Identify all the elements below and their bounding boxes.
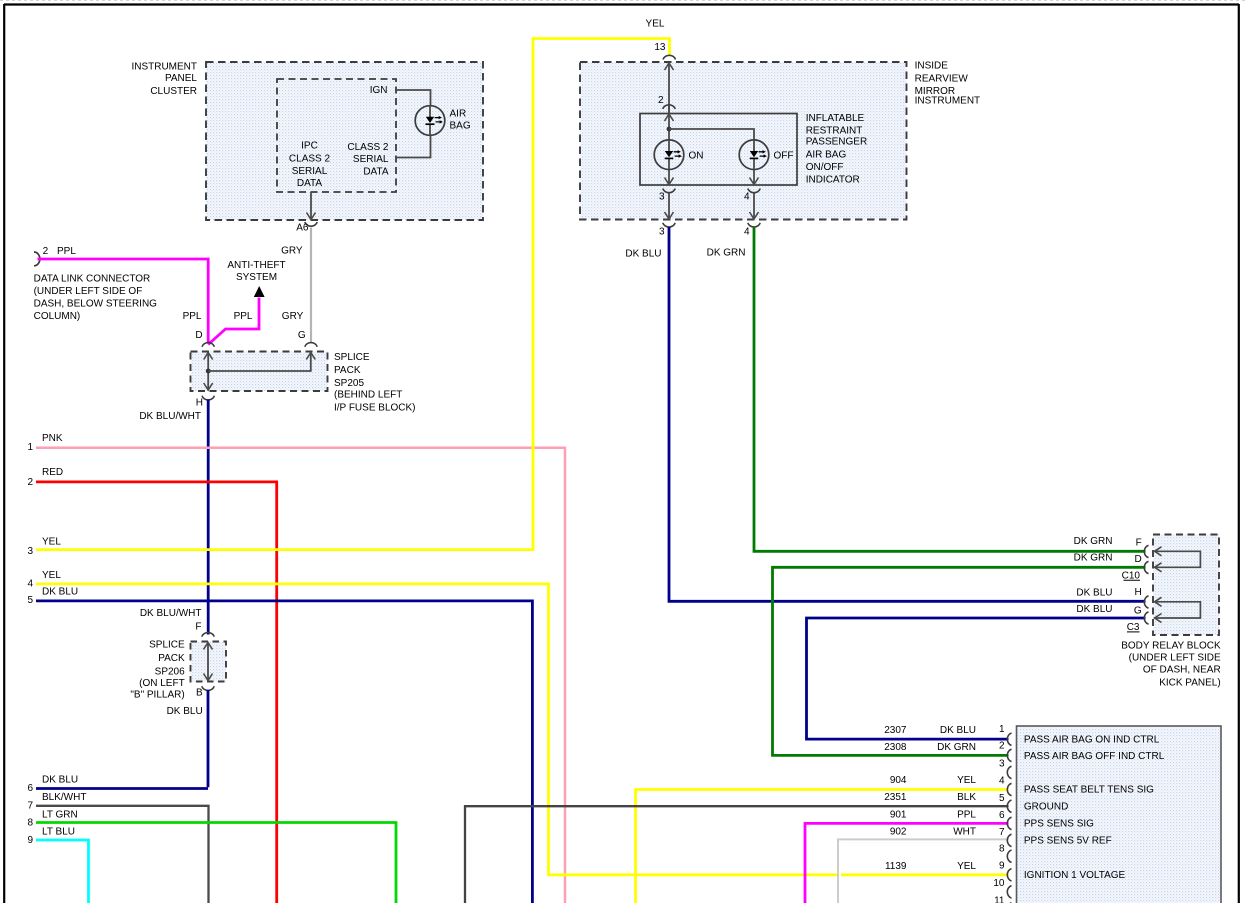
svg-text:2308: 2308 [884, 742, 907, 753]
svg-text:PASS AIR BAG ON IND CTRL: PASS AIR BAG ON IND CTRL [1024, 734, 1160, 745]
svg-text:6: 6 [27, 783, 33, 794]
svg-text:DK GRN: DK GRN [1074, 552, 1113, 563]
svg-text:PACK: PACK [334, 365, 361, 376]
svg-text:3: 3 [659, 227, 665, 238]
wire 1 PNK [27, 433, 565, 903]
wire 901 PPL to pin 6 [805, 823, 1009, 903]
svg-text:LT BLU: LT BLU [42, 826, 75, 837]
SP205 internal bus [204, 353, 316, 391]
wire PPL data link to SP205 D [38, 259, 209, 344]
svg-text:4: 4 [744, 227, 750, 238]
svg-text:C10: C10 [1122, 570, 1141, 581]
svg-text:CLUSTER: CLUSTER [150, 86, 197, 97]
SP205 pin G [298, 330, 317, 347]
inside rearview mirror block [580, 61, 980, 220]
svg-text:YEL: YEL [646, 19, 665, 30]
svg-text:ON/OFF: ON/OFF [806, 162, 844, 173]
svg-text:G: G [1134, 605, 1142, 616]
svg-text:RED: RED [42, 467, 63, 478]
svg-text:DK BLU: DK BLU [167, 706, 203, 717]
splice pack SP206 [130, 639, 226, 700]
svg-text:H: H [1134, 587, 1141, 598]
svg-text:PANEL: PANEL [165, 73, 197, 84]
wire 904 YEL to pin 4 [636, 790, 1009, 903]
SP206 pin F connector [202, 632, 214, 636]
mirror case pin 3 connector [659, 223, 675, 238]
wire 8 LT GRN [27, 809, 396, 903]
svg-text:PASSENGER: PASSENGER [806, 137, 868, 148]
svg-text:IPC: IPC [301, 140, 318, 151]
svg-text:F: F [195, 621, 201, 632]
svg-text:PPL: PPL [183, 311, 202, 322]
svg-text:2307: 2307 [884, 725, 907, 736]
SP205 pin D [195, 330, 214, 347]
svg-text:3: 3 [999, 759, 1005, 770]
wires module pins to mirror case pins [665, 193, 759, 219]
svg-text:6: 6 [999, 810, 1005, 821]
svg-text:902: 902 [890, 826, 907, 837]
module pin 3 connector [659, 189, 675, 203]
svg-text:INFLATABLE: INFLATABLE [806, 113, 865, 124]
svg-text:WHT: WHT [953, 826, 976, 837]
wire GRY A6 to SP205 G [281, 228, 311, 344]
svg-text:5: 5 [27, 595, 33, 606]
LED OFF indicator [739, 140, 793, 170]
svg-text:1139: 1139 [885, 861, 907, 872]
indicator inner module box [640, 113, 867, 186]
svg-text:BLK: BLK [957, 792, 976, 803]
wire DK BLU/WHT SP205 H to SP206 F [139, 400, 208, 635]
svg-text:YEL: YEL [957, 775, 976, 786]
svg-text:1: 1 [999, 724, 1005, 735]
wire PPL branch to anti-theft [208, 298, 259, 345]
svg-text:2: 2 [658, 95, 664, 106]
svg-text:PPL: PPL [57, 246, 76, 257]
connector pin 10 [993, 878, 1011, 898]
svg-text:11: 11 [994, 895, 1005, 903]
svg-text:SYSTEM: SYSTEM [236, 272, 277, 283]
svg-text:2: 2 [27, 477, 33, 488]
svg-text:D: D [1134, 554, 1141, 565]
svg-text:DK GRN: DK GRN [1074, 536, 1113, 547]
wire label 1139 YEL [885, 861, 976, 872]
svg-text:YEL: YEL [42, 536, 61, 547]
svg-text:COLUMN): COLUMN) [34, 311, 81, 322]
body relay connector C10 [1122, 570, 1141, 581]
body relay jumper H-G [1155, 597, 1201, 622]
wire 902 WHT to pin 7 [839, 840, 1009, 903]
body relay connector C3 [1127, 622, 1140, 633]
svg-text:5: 5 [999, 793, 1005, 804]
svg-text:DATA: DATA [297, 178, 323, 189]
svg-text:7: 7 [27, 800, 33, 811]
svg-text:7: 7 [999, 827, 1005, 838]
svg-text:PPS SENS 5V REF: PPS SENS 5V REF [1024, 836, 1112, 847]
svg-text:OFF: OFF [774, 150, 794, 161]
svg-text:INSIDE: INSIDE [915, 61, 949, 72]
svg-text:CLASS 2: CLASS 2 [289, 153, 331, 164]
svg-text:YEL: YEL [957, 861, 976, 872]
instrument panel cluster block [131, 62, 483, 221]
svg-text:2351: 2351 [884, 792, 907, 803]
svg-text:INSTRUMENT: INSTRUMENT [131, 62, 197, 73]
data link connector pin 2 [34, 246, 158, 322]
svg-text:DK BLU: DK BLU [625, 249, 661, 260]
wire 9 LT BLU [27, 826, 88, 903]
svg-text:13: 13 [654, 42, 666, 53]
svg-text:F: F [1136, 538, 1142, 549]
svg-text:DK GRN: DK GRN [937, 742, 976, 753]
wire 3 YEL to mirror pin 13 [27, 19, 669, 557]
svg-text:YEL: YEL [42, 570, 61, 581]
svg-text:SP206: SP206 [155, 666, 185, 677]
svg-text:2: 2 [43, 246, 49, 257]
wire 2 RED [27, 467, 276, 903]
module pin 4 connector [744, 189, 760, 203]
passenger module connector box [1017, 726, 1222, 903]
wire DK GRN mirror pin4 to body relay F [707, 227, 1146, 551]
LED air bag indicator U1 [415, 105, 471, 136]
svg-text:(UNDER LEFT SIDE OF: (UNDER LEFT SIDE OF [34, 286, 143, 297]
label DK BLU/WHT above wire 5 [140, 608, 202, 632]
wire 4 YEL 1139 ignition to pin 9 [27, 570, 1008, 875]
svg-text:DK BLU: DK BLU [42, 587, 78, 598]
svg-text:GROUND: GROUND [1024, 802, 1068, 813]
LED ON indicator [654, 140, 703, 170]
svg-text:SERIAL: SERIAL [353, 154, 389, 165]
svg-text:DATA LINK CONNECTOR: DATA LINK CONNECTOR [34, 273, 151, 284]
svg-text:DASH, BELOW STEERING: DASH, BELOW STEERING [34, 298, 158, 309]
wire 2351 BLK to pin 5 [465, 806, 1009, 903]
svg-text:1: 1 [27, 442, 33, 453]
svg-text:AIR: AIR [450, 108, 467, 119]
wire label 2351 BLK [884, 792, 976, 803]
anti-theft system arrow [227, 260, 285, 297]
wire 5 DK BLU [27, 587, 532, 903]
svg-text:G: G [298, 330, 306, 341]
wire IGN to LED [396, 90, 431, 158]
svg-text:AIR BAG: AIR BAG [806, 149, 847, 160]
svg-text:"B" PILLAR): "B" PILLAR) [130, 689, 184, 700]
pin A6 connector [296, 222, 317, 234]
connector pin 2 [999, 740, 1012, 761]
svg-text:SP205: SP205 [334, 378, 364, 389]
svg-text:SPLICE: SPLICE [334, 352, 370, 363]
svg-text:2: 2 [999, 740, 1005, 751]
svg-text:DK BLU: DK BLU [940, 725, 976, 736]
svg-text:ON: ON [689, 150, 704, 161]
svg-text:BAG: BAG [450, 121, 471, 132]
svg-text:8: 8 [999, 844, 1005, 855]
svg-text:B: B [196, 687, 203, 698]
svg-text:PASS SEAT BELT TENS SIG: PASS SEAT BELT TENS SIG [1024, 785, 1154, 796]
wire label 2308 DK GRN [884, 742, 976, 753]
svg-text:(ON LEFT: (ON LEFT [139, 678, 185, 689]
svg-text:BODY RELAY BLOCK: BODY RELAY BLOCK [1121, 640, 1221, 651]
connector pin 6 [999, 810, 1012, 830]
svg-text:PPL: PPL [957, 809, 976, 820]
svg-text:ANTI-THEFT: ANTI-THEFT [227, 260, 285, 271]
svg-text:I/P FUSE BLOCK): I/P FUSE BLOCK) [334, 402, 416, 413]
SP205 pin H [196, 396, 215, 409]
connector pin 1 [999, 724, 1012, 745]
svg-text:INDICATOR: INDICATOR [806, 175, 860, 186]
wire label 901 PPL [890, 809, 977, 820]
svg-text:904: 904 [890, 775, 907, 786]
svg-text:REARVIEW: REARVIEW [915, 73, 969, 84]
svg-text:PNK: PNK [42, 433, 63, 444]
svg-text:DK BLU: DK BLU [1076, 587, 1112, 598]
svg-text:CLASS 2: CLASS 2 [347, 142, 389, 153]
svg-text:DK BLU: DK BLU [42, 775, 78, 786]
wire 6 DK BLU from SP206 [27, 775, 208, 794]
svg-text:IGN: IGN [370, 85, 388, 96]
svg-text:4: 4 [999, 776, 1005, 787]
svg-text:INSTRUMENT: INSTRUMENT [915, 96, 981, 107]
connector pin 9 [999, 861, 1012, 881]
connector pin 4 [999, 776, 1012, 796]
svg-text:GRY: GRY [281, 245, 303, 256]
connector pin 8 [999, 844, 1012, 863]
wire DK BLU SP206 B down to wire 6 [167, 690, 208, 787]
splice pack SP205 [191, 352, 416, 414]
wire DK BLU mirror pin3 to body relay H [625, 227, 1145, 601]
wire DK GRN body relay D to connector pin 2 [773, 567, 1146, 755]
svg-text:C3: C3 [1127, 622, 1140, 633]
connector pin 3 [999, 759, 1012, 779]
mirror case pin 4 connector [744, 223, 760, 238]
body relay pin H [1076, 587, 1148, 608]
svg-text:9: 9 [27, 835, 33, 846]
mirror pin 13 connector [663, 55, 675, 59]
svg-text:DK BLU/WHT: DK BLU/WHT [140, 608, 202, 619]
wire DK BLU body relay G to connector pin 1 [807, 618, 1146, 739]
svg-text:9: 9 [999, 861, 1005, 872]
svg-text:RESTRAINT: RESTRAINT [806, 126, 863, 137]
connector pin 5 [999, 793, 1012, 812]
svg-text:4: 4 [744, 192, 750, 203]
svg-text:(UNDER LEFT SIDE: (UNDER LEFT SIDE [1129, 652, 1221, 663]
svg-text:(BEHIND LEFT: (BEHIND LEFT [334, 390, 402, 401]
wire IPC to A6 [307, 192, 316, 220]
svg-text:GRY: GRY [282, 311, 304, 322]
body relay block [1121, 535, 1221, 689]
svg-text:IGNITION 1 VOLTAGE: IGNITION 1 VOLTAGE [1024, 870, 1126, 881]
svg-text:PPL: PPL [234, 311, 253, 322]
body relay pin F [1074, 536, 1149, 558]
body relay pin G [1076, 604, 1148, 624]
connector pin 11 [994, 895, 1011, 903]
svg-text:OF DASH, NEAR: OF DASH, NEAR [1143, 664, 1221, 675]
svg-text:LT GRN: LT GRN [42, 809, 78, 820]
wire pin13 to indicator module [665, 63, 674, 113]
IPC class 2 serial data inner module [277, 79, 396, 192]
SP206 internal bus [204, 643, 213, 681]
svg-text:PACK: PACK [158, 653, 185, 664]
SP206 pin B connector [196, 686, 214, 698]
svg-text:H: H [196, 398, 203, 409]
svg-text:D: D [195, 330, 202, 341]
svg-text:DK BLU/WHT: DK BLU/WHT [139, 411, 201, 422]
svg-text:PPS SENS SIG: PPS SENS SIG [1024, 819, 1094, 830]
svg-text:DK BLU: DK BLU [1076, 604, 1112, 615]
svg-text:DK GRN: DK GRN [707, 248, 746, 259]
connector pin 7 [999, 827, 1012, 847]
wire label 902 WHT [890, 826, 976, 837]
body relay pin D [1074, 552, 1149, 573]
svg-text:KICK PANEL): KICK PANEL) [1159, 677, 1221, 688]
svg-text:901: 901 [890, 809, 907, 820]
svg-text:3: 3 [27, 546, 33, 557]
svg-text:8: 8 [27, 818, 33, 829]
svg-text:DATA: DATA [363, 166, 389, 177]
svg-text:SPLICE: SPLICE [149, 639, 185, 650]
wire label 2307 DK BLU [884, 725, 976, 736]
svg-text:BLK/WHT: BLK/WHT [42, 792, 86, 803]
svg-text:10: 10 [993, 878, 1005, 889]
svg-text:A6: A6 [296, 223, 309, 234]
body relay jumper F-D [1155, 547, 1201, 572]
mirror pin 2 connector [658, 95, 675, 109]
indicator internal wiring [665, 106, 759, 185]
svg-text:PASS AIR BAG OFF IND CTRL: PASS AIR BAG OFF IND CTRL [1024, 751, 1165, 762]
wire 7 BLK/WHT [27, 792, 208, 903]
svg-text:4: 4 [27, 578, 33, 589]
svg-text:3: 3 [659, 192, 665, 203]
wire label 904 YEL [890, 775, 977, 786]
svg-text:SERIAL: SERIAL [292, 166, 328, 177]
